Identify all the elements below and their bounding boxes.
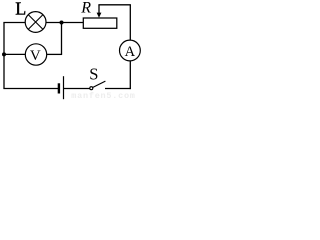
rheostat R body <box>83 18 117 28</box>
wire switch to right corner <box>105 88 131 90</box>
junction node top <box>60 21 64 25</box>
wire lamp to rheostat <box>46 22 84 24</box>
battery positive plate (long thin) <box>63 76 65 99</box>
ammeter A circle <box>119 40 140 61</box>
svg-text:V: V <box>30 48 41 64</box>
wire right vertical upper <box>129 5 131 40</box>
voltmeter wire left <box>4 53 25 55</box>
junction node left <box>2 52 6 56</box>
voltmeter V circle <box>25 44 46 65</box>
background <box>0 0 143 100</box>
svg-text:S: S <box>89 65 98 84</box>
wire top left (battery side to lamp) <box>3 22 25 24</box>
lamp L circle <box>25 12 46 33</box>
svg-text:R: R <box>80 0 91 16</box>
wire left vertical <box>3 23 5 89</box>
wire right vertical lower <box>129 61 131 89</box>
lamp X stroke 1 <box>28 15 43 30</box>
rheostat slider arrowhead <box>97 13 102 18</box>
wire bottom left (to battery) <box>3 88 58 90</box>
wire middle vertical (junction to voltmeter branch) <box>61 23 63 55</box>
voltmeter wire right <box>47 53 62 55</box>
wire slider top horizontal <box>98 4 130 6</box>
lamp X stroke 2 <box>28 15 43 30</box>
battery negative plate (short thick) <box>58 83 60 93</box>
wire battery to switch <box>64 88 90 90</box>
svg-text:manfen5.com: manfen5.com <box>71 91 135 100</box>
svg-text:A: A <box>125 44 136 60</box>
svg-text:L: L <box>15 0 26 19</box>
rheostat slider arrow shaft <box>98 5 100 14</box>
switch pivot circle <box>90 87 93 90</box>
switch lever <box>93 81 106 87</box>
